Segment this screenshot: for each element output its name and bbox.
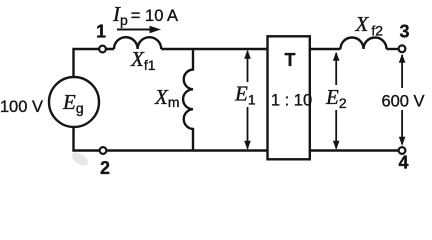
wire top rail middle segment bbox=[161, 48, 267, 50]
terminal 4 bbox=[399, 147, 406, 154]
svg-text:3: 3 bbox=[399, 22, 409, 42]
terminal 2 bbox=[100, 147, 107, 154]
transformer box T bbox=[268, 36, 310, 159]
svg-text:100 V: 100 V bbox=[0, 98, 43, 116]
source E_g circle bbox=[49, 77, 99, 127]
inductor X_f2 coil bbox=[341, 38, 387, 50]
svg-text:600 V: 600 V bbox=[381, 93, 424, 111]
wire top rail right segment bbox=[310, 48, 341, 50]
wire bottom rail right segment bbox=[310, 149, 401, 151]
label E_1 bbox=[234, 82, 255, 107]
voltage arrow 600 V bbox=[401, 55, 403, 145]
svg-text:1: 1 bbox=[96, 22, 106, 42]
svg-text:T: T bbox=[285, 50, 296, 70]
wire bottom rail left segment with corner bbox=[74, 127, 268, 151]
magnetizing branch X_m wire and coil bbox=[183, 49, 193, 151]
svg-text:1 : 10: 1 : 10 bbox=[271, 92, 312, 110]
svg-text:4: 4 bbox=[398, 153, 408, 173]
current arrow I_p bbox=[117, 29, 151, 31]
voltage arrow E_1 bbox=[247, 51, 249, 149]
wire top rail to terminal 3 bbox=[387, 48, 402, 50]
inductor X_f1 coil bbox=[114, 37, 161, 49]
wire top rail left segment with corner bbox=[74, 49, 115, 78]
svg-text:2: 2 bbox=[100, 158, 110, 177]
scan smudge artifact bbox=[70, 150, 90, 169]
label E_2 bbox=[325, 85, 348, 110]
voltage arrow E_2 bbox=[335, 53, 337, 149]
label 600 V bbox=[379, 88, 426, 110]
terminal 1 bbox=[99, 46, 106, 53]
terminal 3 bbox=[399, 45, 406, 52]
